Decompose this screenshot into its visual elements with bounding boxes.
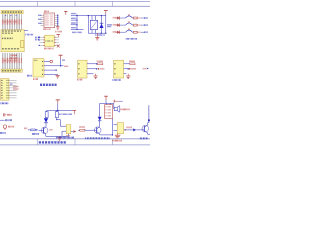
connector J1 body [1, 79, 9, 101]
wire optocoupler lower-left pin [62, 131, 66, 136]
capacitor C1 symbol [3, 113, 6, 116]
U2 designator text [44, 10, 49, 12]
U4 inner pin text marks [34, 60, 44, 74]
connector JP1 body [78, 60, 87, 78]
wire U4 pin 1 [44, 61, 50, 63]
sheet border bottom line 1 [0, 138, 150, 140]
resistor network RP2 bottom label strip [1, 69, 22, 72]
transistor hump row 2 [126, 22, 133, 26]
U1 second text row [2, 32, 13, 34]
ground below U2 right bus [56, 26, 59, 30]
wire Q2 base [87, 129, 97, 131]
microphone MK1 symbol [3, 125, 6, 130]
U1 inner label text [2, 37, 13, 39]
ground left driver [57, 136, 61, 140]
JP1 designator text [77, 79, 82, 81]
CN inner pin marks [106, 107, 112, 116]
resistor network RP2 designator text [11, 54, 18, 56]
sheet border top zone ticks [38, 1, 113, 6]
resistor R8 with wires [28, 129, 38, 131]
resistor network RP1 resistor bodies [2, 19, 21, 24]
wire net ladder vertical [76, 15, 78, 31]
C1 label text [7, 114, 12, 116]
power symbol VCC bottom right [114, 100, 123, 103]
ground below U6 [115, 134, 121, 138]
net ladder stub wires [71, 15, 84, 29]
resistor network RP2 extra red text [9, 57, 18, 59]
wire relay box top stubs [92, 16, 96, 21]
no-connect ring on U4 pin 1 [50, 60, 53, 63]
LED D6 [98, 117, 102, 127]
U3 right pin wires [54, 37, 59, 45]
U2 part-number text [43, 28, 51, 30]
power symbol VCC at U3 top right [56, 34, 60, 37]
resistor network RP1 value text overlay [2, 21, 19, 23]
sheet border bottom zone ticks [38, 139, 113, 145]
resistor R row 1 body [133, 17, 137, 19]
wire right edge vertical [148, 105, 150, 123]
LED D2 symbol [116, 16, 120, 19]
sheet border top line 1 [0, 0, 150, 2]
wire JP2 pin 2 [124, 68, 129, 69]
wire relay left vertical [87, 16, 89, 34]
wire with arrow mid bottom-right [124, 128, 141, 131]
net label far right of JP2 [143, 68, 149, 69]
resistor R on JP2 pin 1 [130, 63, 135, 65]
sheet border top line 2 [0, 5, 150, 7]
resistor R7 value text [79, 126, 85, 128]
red output arrow of optocoupler [73, 130, 76, 133]
wire stub right of U4 pin 2 junction [61, 65, 64, 67]
wire relay right vertical [105, 14, 107, 33]
diode symbol on JP2 pin 2 [129, 68, 136, 69]
U3 designator text [44, 48, 53, 50]
wire relay box bottom stubs [92, 30, 96, 34]
connector CN body (red) [105, 105, 113, 119]
J1 pin wires [9, 80, 17, 98]
relay junction dots [88, 15, 107, 34]
wire LED row 2 segment b [132, 24, 133, 26]
ground below JP2 pin 3 [126, 74, 130, 79]
resistor network RP2 resistor columns [2, 53, 21, 69]
U2 internal pin-name text rows [45, 15, 54, 25]
resistor network RP2 value text overlay [2, 60, 19, 62]
microcontroller U1 body [1, 30, 24, 52]
net ladder junction dots [76, 15, 77, 30]
U3 left pin wires [39, 37, 44, 45]
J1 designator text [1, 102, 9, 104]
middle driver caption text [85, 137, 110, 139]
transistor Q1 [39, 127, 48, 137]
net label text right of U1 row A [26, 34, 34, 36]
optocoupler U6 body [117, 123, 123, 134]
resistor value text JP2 pin 1 [129, 60, 135, 62]
wire optocoupler output [71, 130, 73, 132]
U4 caption CJK text [40, 84, 57, 86]
transistor Q3 [141, 123, 150, 134]
resistor R7 body [78, 129, 86, 131]
resistor R5 body [45, 110, 48, 118]
J1 red net texts [13, 87, 19, 90]
net ladder bottom text [72, 31, 82, 33]
wire CN top stubs [107, 103, 111, 104]
wire LED row 2 segment a [120, 24, 126, 26]
wire JP1 pin 3 [87, 73, 93, 75]
connector JP2 body [114, 60, 124, 78]
no-connect cross at U3 bottom right [57, 45, 60, 48]
net label above J1 [27, 75, 32, 77]
resistor R row 3 value text [138, 31, 141, 33]
connector U4 body [33, 59, 44, 77]
power symbol VCC above relay [104, 11, 108, 14]
optocoupler U5 body [66, 125, 71, 137]
net label row 2 [144, 24, 147, 26]
resistor network RP1 top label strip [1, 10, 23, 13]
sheet border bottom line 2 [0, 144, 150, 146]
wire VCC stem to rail [57, 103, 59, 110]
LED row 1 label text [113, 17, 117, 19]
U3 left junction dots [39, 37, 40, 46]
net label text right of R6 [59, 113, 72, 115]
speaker label text red [121, 108, 130, 110]
LED D5 [44, 118, 48, 127]
wire U4 pin 2 [44, 65, 61, 66]
U2 right pin wires [55, 15, 58, 25]
resistor R6 body [55, 110, 58, 119]
U4 designator text [33, 78, 38, 80]
U1 crystal sub-part [21, 41, 24, 48]
title text left [56, 137, 74, 139]
JP2 designator text [113, 79, 121, 81]
wire net stub bottom left [0, 119, 5, 121]
LED row 2 label text [113, 24, 117, 26]
wire JP1 pin 1 [87, 63, 97, 64]
wire left driver bottom rail [46, 135, 69, 137]
wire LED row 3 segment b [132, 31, 133, 33]
relay bottom text [96, 34, 105, 36]
wire LED row 1 segment c [141, 17, 144, 19]
ic U3 body [45, 35, 55, 46]
J1 inner pin number marks [1, 80, 8, 98]
wire LED row 1 segment a [120, 17, 126, 19]
wire LED row 3 segment a [120, 31, 126, 33]
U2 right bus junction dots [57, 15, 58, 26]
net label row 3 [144, 31, 147, 33]
wire U6 left pins [113, 125, 117, 131]
net label text B [32, 133, 39, 135]
net label row 1 [144, 17, 147, 19]
net label text right of U1 row B [35, 36, 40, 38]
diode symbol on JP1 pin 2 [98, 68, 105, 69]
net label bottom left [5, 119, 12, 121]
wire LED row 2 segment c [141, 24, 144, 26]
diode D1 across relay coil [99, 16, 103, 34]
relay K1 coil box [90, 20, 97, 29]
speaker LS1 symbol [114, 103, 120, 112]
left driver caption CJK text [39, 141, 66, 143]
resistor R row 1 value text [138, 17, 141, 19]
wire U4 pin 3 [44, 70, 57, 71]
U1 bottom text row [2, 48, 20, 50]
ic U2 body [44, 13, 55, 28]
red net text right of U4 pin 2 [64, 65, 69, 67]
wire left driver top rail [47, 110, 73, 111]
power symbol VCC middle driver [104, 96, 108, 100]
ground below JP1 pin 3 [94, 74, 98, 79]
wire R6 to optocoupler input [56, 119, 66, 126]
net label text A [0, 132, 5, 134]
wire JP2 pin 3 [124, 73, 127, 75]
U2 left pin wires [41, 15, 45, 25]
Q3 caption text [140, 137, 148, 139]
wire LED row 1 segment b [132, 17, 133, 19]
LED D4 symbol [116, 31, 120, 34]
red mark below optocoupler [66, 135, 70, 137]
resistor network RP2 resistor bodies [2, 58, 21, 63]
R8 designator text [24, 127, 27, 129]
resistor value text JP1 pin 1 [97, 60, 103, 62]
transistor Q2 [94, 127, 101, 135]
text label right of U2 ground [56, 31, 63, 33]
wire right of U1 top [24, 30, 28, 32]
net label text right of U1 row C [35, 39, 39, 41]
resistor R row 2 body [133, 24, 137, 26]
wire U2 right bus vertical [57, 14, 59, 25]
wire LED row 3 segment c [141, 31, 144, 33]
resistor network RP1 resistor columns [2, 14, 21, 30]
power symbol VCC left driver [56, 100, 60, 104]
red label near Q1 [50, 129, 53, 131]
wire relay top rail [84, 15, 106, 17]
LED D3 symbol [116, 23, 120, 26]
red label mid bottom-right [127, 126, 132, 128]
power symbol VCC above U4 pin 2 [59, 55, 63, 66]
U1 top pin-number text row [2, 30, 21, 32]
wire relay bottom rail [88, 32, 106, 34]
resistor R row 2 value text [138, 24, 141, 26]
wire VCC elbow middle [100, 100, 114, 117]
net label beside VCC stem [62, 59, 65, 61]
wire U4 pin 4 [44, 73, 58, 75]
resistor network RP1 junction dots [5, 14, 16, 17]
J1 blue mark [10, 83, 12, 85]
ground below relay [95, 33, 99, 40]
resistor R on JP1 pin 1 [98, 63, 103, 65]
power symbol VCC at rail right end [72, 110, 76, 114]
ground below U4 pin 4 [56, 74, 60, 78]
power flag near U2 [64, 11, 67, 14]
transistor hump row 3 [126, 29, 133, 33]
relay part text right [107, 25, 112, 27]
wire middle driver bottom rail [100, 119, 113, 136]
wire JP2 pin 1 [124, 63, 130, 65]
wire JP1 pin 2 [87, 68, 97, 69]
U2 left net label texts [38, 15, 42, 23]
MK1 label text [8, 126, 13, 128]
net ladder label texts [71, 14, 76, 28]
resistor R row 3 body [133, 31, 137, 33]
U6 designator text red [113, 140, 122, 142]
LED rows caption text [126, 38, 137, 40]
transistor hump row 1 [126, 14, 133, 18]
LED row 3 label text [113, 31, 117, 33]
